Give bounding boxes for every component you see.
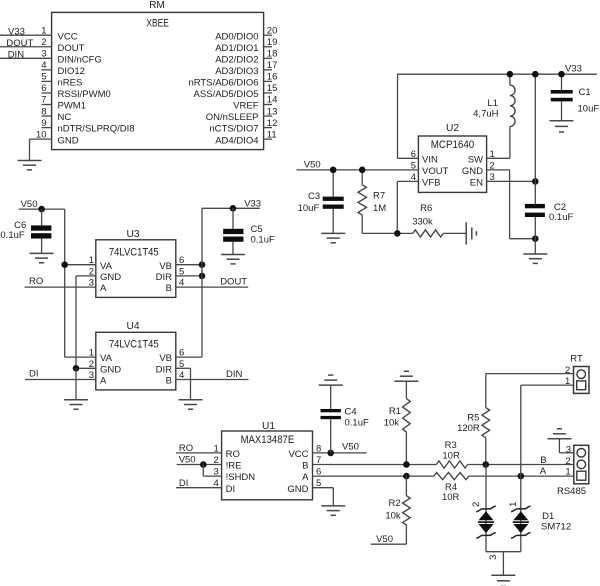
svg-text:13: 13: [267, 106, 278, 117]
svg-text:DOUT: DOUT: [220, 277, 247, 288]
svg-text:18: 18: [267, 49, 278, 60]
svg-text:330k: 330k: [412, 217, 433, 228]
svg-text:0.1uF: 0.1uF: [549, 212, 573, 223]
svg-text:RT: RT: [570, 353, 583, 364]
svg-text:10R: 10R: [442, 450, 460, 461]
svg-text:16: 16: [267, 72, 278, 83]
svg-text:R1: R1: [389, 406, 401, 417]
svg-text:R5: R5: [467, 412, 479, 423]
svg-text:10uF: 10uF: [578, 104, 600, 115]
svg-text:V50: V50: [304, 159, 321, 170]
svg-text:VB: VB: [159, 353, 172, 364]
svg-text:DI: DI: [226, 484, 236, 495]
svg-text:10k: 10k: [384, 418, 400, 429]
svg-text:!SHDN: !SHDN: [226, 472, 256, 483]
svg-text:A: A: [100, 283, 107, 294]
svg-text:120R: 120R: [457, 423, 480, 434]
svg-text:MCP1640: MCP1640: [431, 139, 475, 151]
svg-text:3: 3: [566, 445, 571, 456]
svg-text:2: 2: [471, 502, 482, 507]
svg-text:4,7uH: 4,7uH: [473, 109, 498, 120]
svg-text:NC: NC: [58, 112, 72, 123]
svg-text:RO: RO: [226, 449, 240, 460]
svg-text:VOUT: VOUT: [422, 166, 449, 177]
svg-text:3: 3: [488, 555, 499, 560]
svg-text:U1: U1: [262, 421, 275, 432]
svg-text:V33: V33: [565, 64, 582, 75]
svg-text:AD2/DIO2: AD2/DIO2: [215, 54, 258, 65]
svg-text:14: 14: [267, 95, 278, 106]
svg-text:DIN/nCFG: DIN/nCFG: [58, 54, 102, 65]
svg-text:RO: RO: [29, 276, 43, 287]
svg-text:DIR: DIR: [156, 364, 173, 375]
svg-text:11: 11: [267, 129, 277, 140]
svg-text:DIN: DIN: [226, 369, 243, 380]
svg-text:19: 19: [267, 37, 278, 48]
svg-text:MAX13487E: MAX13487E: [241, 434, 295, 446]
svg-text:V33: V33: [8, 26, 25, 37]
svg-text:R6: R6: [420, 203, 432, 214]
svg-text:nRES: nRES: [58, 78, 83, 89]
svg-text:D1: D1: [542, 511, 554, 522]
svg-text:C1: C1: [579, 87, 591, 98]
svg-text:0.1uF: 0.1uF: [251, 235, 275, 246]
svg-text:VB: VB: [159, 261, 172, 272]
svg-text:AD4/DIO4: AD4/DIO4: [215, 135, 258, 146]
svg-text:DIR: DIR: [156, 272, 173, 283]
svg-text:A: A: [100, 376, 107, 387]
svg-text:GND: GND: [287, 484, 308, 495]
svg-text:DI: DI: [29, 369, 39, 380]
svg-text:nDTR/SLPRQ/DI8: nDTR/SLPRQ/DI8: [58, 124, 135, 135]
svg-text:0.1uF: 0.1uF: [345, 418, 369, 429]
svg-text:VCC: VCC: [58, 31, 78, 42]
svg-text:C3: C3: [308, 191, 320, 202]
svg-text:VIN: VIN: [422, 154, 438, 165]
svg-text:C4: C4: [345, 406, 357, 417]
svg-text:V50: V50: [21, 199, 38, 210]
svg-text:nRTS/AD6/DIO6: nRTS/AD6/DIO6: [188, 78, 258, 89]
svg-text:1: 1: [565, 376, 570, 387]
svg-text:RSSI/PWM0: RSSI/PWM0: [58, 89, 111, 100]
svg-text:V50: V50: [342, 442, 359, 453]
svg-text:RS485: RS485: [557, 486, 586, 497]
svg-text:74LVC1T45: 74LVC1T45: [109, 246, 159, 258]
svg-text:AD1/DIO1: AD1/DIO1: [215, 43, 258, 54]
svg-text:V33: V33: [244, 199, 261, 210]
svg-text:SW: SW: [468, 154, 483, 165]
svg-text:2: 2: [565, 365, 570, 376]
svg-text:SM712: SM712: [541, 521, 571, 532]
svg-text:GND: GND: [100, 364, 121, 375]
svg-text:DIO12: DIO12: [58, 66, 85, 77]
svg-text:17: 17: [267, 60, 278, 71]
svg-text:VREF: VREF: [233, 101, 259, 112]
svg-text:V50: V50: [376, 534, 393, 545]
svg-text:B: B: [540, 455, 546, 466]
svg-text:ON/nSLEEP: ON/nSLEEP: [206, 112, 259, 123]
svg-text:L1: L1: [487, 98, 498, 109]
svg-text:1: 1: [565, 467, 570, 478]
svg-text:U3: U3: [126, 229, 139, 240]
svg-text:C5: C5: [251, 224, 263, 235]
svg-text:V50: V50: [179, 455, 196, 466]
svg-text:C6: C6: [14, 220, 26, 231]
svg-text:12: 12: [267, 118, 278, 129]
svg-text:10uF: 10uF: [298, 203, 320, 214]
svg-text:20: 20: [267, 25, 278, 36]
svg-text:XBEE: XBEE: [146, 18, 169, 30]
svg-text:DI: DI: [179, 478, 189, 489]
svg-text:VA: VA: [100, 353, 113, 364]
svg-text:15: 15: [267, 83, 278, 94]
svg-text:nCTS/DIO7: nCTS/DIO7: [209, 124, 258, 135]
svg-text:GND: GND: [100, 272, 121, 283]
svg-text:GND: GND: [58, 135, 79, 146]
svg-text:VA: VA: [100, 261, 113, 272]
svg-text:1: 1: [508, 502, 519, 507]
svg-text:AD0/DIO0: AD0/DIO0: [215, 31, 258, 42]
svg-text:0.1uF: 0.1uF: [0, 230, 24, 241]
svg-text:AD3/DIO3: AD3/DIO3: [215, 66, 258, 77]
svg-text:10R: 10R: [442, 492, 460, 503]
svg-text:EN: EN: [470, 178, 483, 189]
svg-text:DIN: DIN: [8, 50, 25, 61]
svg-text:74LVC1T45: 74LVC1T45: [109, 338, 159, 350]
svg-text:1M: 1M: [373, 203, 386, 214]
svg-text:R7: R7: [373, 191, 385, 202]
svg-text:2: 2: [565, 456, 570, 467]
svg-text:GND: GND: [462, 166, 483, 177]
svg-text:DOUT: DOUT: [58, 43, 85, 54]
svg-text:B: B: [302, 461, 308, 472]
svg-text:A: A: [540, 466, 547, 477]
svg-text:RM: RM: [149, 0, 165, 11]
svg-text:ASS/AD5/DIO5: ASS/AD5/DIO5: [194, 89, 259, 100]
svg-text:A: A: [302, 472, 309, 483]
svg-text:!RE: !RE: [226, 461, 242, 472]
svg-text:10k: 10k: [385, 511, 401, 522]
svg-text:U4: U4: [126, 321, 139, 332]
svg-text:R3: R3: [445, 440, 457, 451]
svg-text:R2: R2: [389, 498, 401, 509]
svg-text:VFB: VFB: [422, 178, 440, 189]
svg-text:B: B: [166, 283, 172, 294]
svg-text:DOUT: DOUT: [6, 38, 33, 49]
svg-text:PWM1: PWM1: [58, 101, 87, 112]
svg-text:U2: U2: [446, 123, 459, 134]
svg-text:VCC: VCC: [288, 449, 308, 460]
svg-text:RO: RO: [179, 443, 193, 454]
svg-text:B: B: [166, 376, 172, 387]
